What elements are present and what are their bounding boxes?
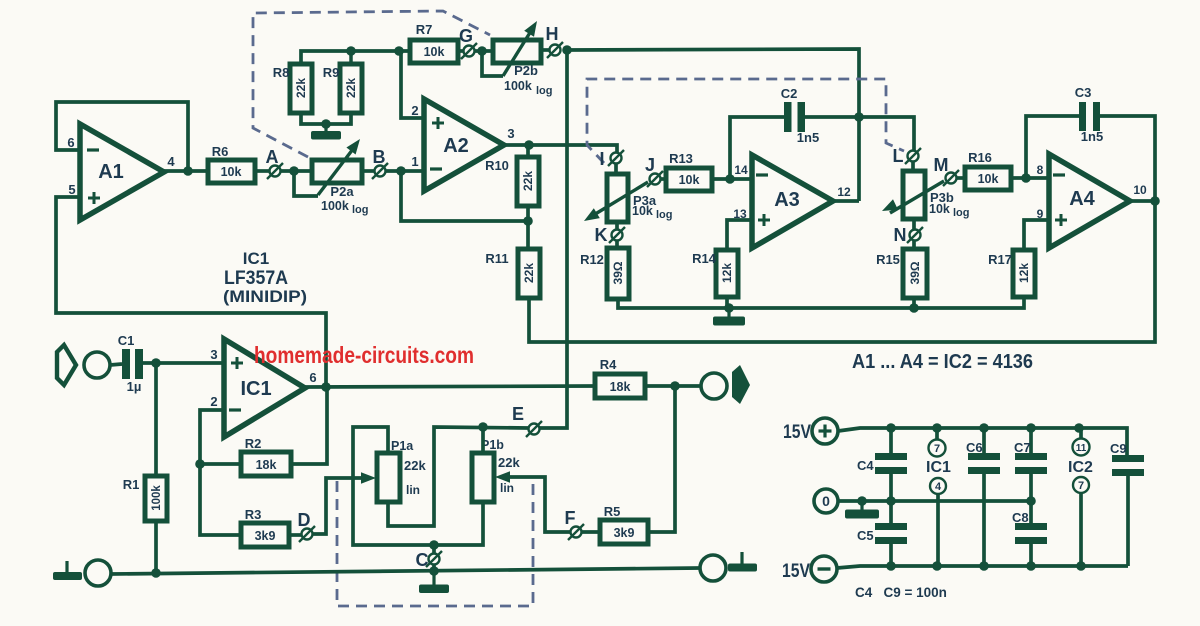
svg-text:3k9: 3k9 xyxy=(614,526,635,540)
svg-text:C9: C9 xyxy=(1110,441,1127,456)
P2b value label 100k log xyxy=(504,79,553,97)
node F xyxy=(571,527,582,538)
svg-text:C1: C1 xyxy=(118,333,135,348)
resistor R8 xyxy=(290,64,312,113)
resistor R15 xyxy=(903,240,927,298)
svg-text:18k: 18k xyxy=(610,380,631,394)
svg-text:22k: 22k xyxy=(294,78,308,98)
wire R11 bottom to A4 output xyxy=(529,201,1155,342)
resistor R1 xyxy=(145,363,167,573)
wire node A to P2a xyxy=(280,169,312,173)
junction C7 top xyxy=(1026,423,1036,433)
svg-text:log: log xyxy=(656,209,673,221)
dashed gang link P1a-P1b xyxy=(337,479,533,606)
svg-text:F: F xyxy=(565,508,576,528)
wire C3 right to A4 output xyxy=(1100,116,1155,201)
capacitor C7 xyxy=(1015,428,1047,501)
junction C4 C5 xyxy=(886,496,896,506)
svg-text:L: L xyxy=(893,146,904,166)
svg-text:homemade-circuits.com: homemade-circuits.com xyxy=(254,342,474,368)
svg-text:A1: A1 xyxy=(98,161,124,183)
P2a value label 100k log xyxy=(321,199,369,216)
svg-text:10k: 10k xyxy=(929,202,950,216)
svg-text:10: 10 xyxy=(1133,183,1147,197)
resistor R9 xyxy=(340,53,362,113)
svg-text:R6: R6 xyxy=(212,144,229,159)
svg-text:E: E xyxy=(512,404,524,424)
potentiometer P2b xyxy=(493,21,541,76)
wire P1b top stub xyxy=(481,427,485,453)
wire output column to node L xyxy=(859,117,914,150)
junction node C rail xyxy=(429,566,439,576)
dashed gang link P2a-P2b xyxy=(253,11,490,157)
svg-text:K: K xyxy=(595,225,608,245)
svg-text:22k: 22k xyxy=(521,171,535,191)
junction R9 top xyxy=(346,46,356,56)
wire A1 output to R6 xyxy=(164,169,208,173)
wire R15 bottom to ground rail xyxy=(912,298,916,308)
svg-text:H: H xyxy=(546,24,559,44)
junction node C xyxy=(429,540,439,550)
wire P2a wiper tie xyxy=(294,171,318,196)
junction at node G xyxy=(477,46,487,56)
junction IC1 pin7 top xyxy=(932,423,942,433)
svg-text:P2b: P2b xyxy=(514,63,538,78)
svg-text:22k: 22k xyxy=(404,458,426,473)
svg-text:LF357A: LF357A xyxy=(224,267,288,289)
op-amp A4 xyxy=(1049,154,1130,248)
svg-text:log: log xyxy=(352,204,369,216)
svg-text:P2a: P2a xyxy=(330,184,354,199)
svg-text:R12: R12 xyxy=(580,252,604,267)
junction IC2 pin7 bottom xyxy=(1076,561,1086,571)
svg-text:6: 6 xyxy=(309,370,316,385)
svg-text:C4: C4 xyxy=(857,458,874,473)
wire IC1 pin2 to feedback column xyxy=(200,410,241,535)
junction A4 pin8 xyxy=(1021,173,1031,183)
P1a wiper arrowhead xyxy=(361,472,376,484)
junction at node H xyxy=(562,45,572,55)
junction R14 ground xyxy=(724,303,734,313)
svg-text:A1 ... A4 = IC2 = 4136: A1 ... A4 = IC2 = 4136 xyxy=(852,351,1033,373)
IC1 type label xyxy=(223,249,307,306)
svg-text:A: A xyxy=(266,147,279,167)
svg-text:1: 1 xyxy=(411,154,418,169)
wire 0V rail xyxy=(838,499,1031,503)
svg-text:7: 7 xyxy=(934,443,940,455)
junction 0V ground xyxy=(857,496,867,506)
wire R8 R9 bottoms xyxy=(301,113,351,124)
node I xyxy=(611,153,622,164)
node D xyxy=(302,529,313,540)
svg-text:R9: R9 xyxy=(323,65,340,80)
junction P1b top xyxy=(478,422,488,432)
svg-text:lin: lin xyxy=(500,481,514,495)
junction A2 pin2 tap xyxy=(394,46,404,56)
resistor R10 xyxy=(517,145,539,221)
junction feedback column xyxy=(195,459,205,469)
node E xyxy=(529,424,540,435)
op-amp A3 xyxy=(752,155,833,248)
node M xyxy=(946,173,957,184)
wire P2b wiper tie xyxy=(482,51,503,76)
wire R2 left xyxy=(200,462,241,466)
svg-text:4: 4 xyxy=(935,481,942,493)
output terminal xyxy=(701,373,727,399)
IC1 pin 7 circle xyxy=(929,428,946,457)
wire P1a bottom to node E loop xyxy=(388,427,528,526)
junction C7 C8 xyxy=(1026,496,1036,506)
resistor R12 xyxy=(607,240,629,299)
junction IC2 pin11 top xyxy=(1074,423,1084,433)
potentiometer P3a xyxy=(584,163,648,222)
wire A1 feedback loop (pin6 to output) xyxy=(56,102,188,171)
svg-text:10k: 10k xyxy=(978,172,999,186)
junction at node B xyxy=(396,166,406,176)
wire node B down to R10 bottom rail xyxy=(401,171,528,221)
svg-text:IC2: IC2 xyxy=(1068,459,1093,476)
svg-text:3k9: 3k9 xyxy=(255,529,276,543)
resistor R3 xyxy=(241,523,289,547)
bottom rail left terminal xyxy=(85,560,111,586)
svg-text:P1a: P1a xyxy=(391,439,414,453)
wire R16 to A4 pin8 xyxy=(1011,176,1049,180)
svg-text:R2: R2 xyxy=(245,436,262,451)
junction A3 pin14 xyxy=(725,174,735,184)
svg-text:3: 3 xyxy=(210,347,217,362)
potentiometer P2a xyxy=(312,139,362,195)
junction R8 R9 bottom xyxy=(321,119,331,129)
capacitor C2 xyxy=(784,102,792,132)
svg-text:3: 3 xyxy=(507,126,514,141)
resistor R16 xyxy=(965,167,1011,190)
wire A3 output xyxy=(833,199,859,203)
junction R4 output xyxy=(670,381,680,391)
wire P1b wiper to node F xyxy=(503,477,570,532)
wire R4 to output terminal xyxy=(645,384,701,388)
junction IC1 pin4 bottom xyxy=(932,561,942,571)
svg-text:2: 2 xyxy=(210,394,217,409)
svg-text:R17: R17 xyxy=(988,252,1012,267)
svg-text:B: B xyxy=(373,147,386,167)
wire node G to P2b xyxy=(474,49,493,53)
svg-text:IC1: IC1 xyxy=(240,378,271,400)
junction A4 output xyxy=(1150,196,1160,206)
svg-text:log: log xyxy=(953,207,970,219)
ground at 0V rail xyxy=(860,501,863,510)
-15V terminal xyxy=(782,556,837,582)
ground under R8 R9 xyxy=(324,124,327,132)
junction R15 ground xyxy=(909,303,919,313)
svg-text:A3: A3 xyxy=(774,189,800,211)
ground under R14 xyxy=(727,308,730,317)
resistor R14 xyxy=(716,250,738,308)
svg-text:M: M xyxy=(934,155,949,175)
svg-text:0: 0 xyxy=(822,493,830,509)
svg-text:R11: R11 xyxy=(485,251,508,266)
wire -15V bottom rail xyxy=(837,566,1128,568)
wire +15V top rail xyxy=(838,428,1127,455)
svg-text:R1: R1 xyxy=(123,477,140,492)
wire node D to P1a wiper xyxy=(313,478,366,534)
svg-text:22k: 22k xyxy=(498,455,520,470)
svg-text:G: G xyxy=(459,26,473,46)
resistor R6 xyxy=(208,160,255,183)
wire C2 right to output column xyxy=(805,115,859,119)
svg-text:39Ω: 39Ω xyxy=(908,261,922,284)
svg-text:4: 4 xyxy=(167,154,175,169)
svg-text:100k: 100k xyxy=(151,485,163,511)
wire C3 feedback left xyxy=(1026,116,1079,178)
capacitor C4 xyxy=(875,428,907,501)
wire R5 to output node xyxy=(648,386,675,532)
wire A3 pin13 to R14 xyxy=(727,220,752,250)
wire A4 output xyxy=(1130,199,1155,203)
resistor R7 xyxy=(410,40,458,63)
svg-text:lin: lin xyxy=(406,483,420,497)
junction C5 bottom xyxy=(886,561,896,571)
P3b value label 10k log xyxy=(929,202,970,219)
svg-text:N: N xyxy=(894,225,907,245)
IC1 pin 4 circle xyxy=(930,478,946,566)
junction R10 bottom xyxy=(523,216,533,226)
svg-text:1n5: 1n5 xyxy=(1081,129,1103,144)
wire R6 to node A xyxy=(255,169,270,173)
resistor R13 xyxy=(666,168,712,191)
junction C6 top xyxy=(979,423,989,433)
op-amp A2 xyxy=(424,99,504,191)
svg-text:14: 14 xyxy=(734,163,748,177)
IC2 pin 7 circle xyxy=(1073,477,1089,566)
svg-text:R15: R15 xyxy=(876,252,900,267)
svg-text:C4 C9 = 100n: C4 C9 = 100n xyxy=(855,585,947,600)
svg-text:12: 12 xyxy=(837,185,851,199)
svg-text:IC1: IC1 xyxy=(243,249,269,268)
wire node B to A2 pin1 xyxy=(385,169,424,173)
svg-text:8: 8 xyxy=(1037,163,1044,177)
svg-text:10k: 10k xyxy=(679,173,700,187)
svg-text:D: D xyxy=(298,510,311,530)
dashed gang link P3a-P3b xyxy=(587,79,904,163)
wire P2b to node H xyxy=(541,48,550,52)
svg-text:R13: R13 xyxy=(669,151,693,166)
wire node H to A3 output column xyxy=(567,49,859,201)
P1b wiper arrowhead xyxy=(495,471,510,483)
svg-text:10k: 10k xyxy=(221,165,242,179)
+15V terminal xyxy=(783,418,838,444)
svg-text:(MINIDIP): (MINIDIP) xyxy=(223,287,307,306)
svg-text:R14: R14 xyxy=(692,251,717,266)
svg-text:C6: C6 xyxy=(966,440,983,455)
svg-text:2: 2 xyxy=(411,103,418,118)
IC2 pin 11 circle xyxy=(1073,428,1090,456)
svg-text:C8: C8 xyxy=(1012,510,1029,525)
svg-text:C5: C5 xyxy=(857,528,874,543)
svg-text:10k: 10k xyxy=(424,45,445,59)
wire P1a top to node C loop xyxy=(353,427,434,545)
node N xyxy=(910,230,921,241)
svg-text:R7: R7 xyxy=(416,22,433,37)
output arrow symbol xyxy=(732,365,750,404)
wire node F to R5 xyxy=(582,530,600,534)
junction A2 output xyxy=(524,140,534,150)
wire R8 R9 tops to R7 xyxy=(301,51,410,64)
capacitor C5 xyxy=(875,501,907,566)
wire R2 right to IC1 output xyxy=(291,387,327,464)
svg-text:10k: 10k xyxy=(632,204,653,218)
node L xyxy=(908,151,919,162)
capacitor C6 xyxy=(968,428,1000,566)
svg-text:15V: 15V xyxy=(783,422,811,443)
wire IC1 output to R4 xyxy=(305,386,595,387)
junction A1 output xyxy=(183,166,193,176)
svg-text:18k: 18k xyxy=(256,458,277,472)
potentiometer P1a xyxy=(377,453,400,502)
junction at node A xyxy=(289,166,299,176)
input arrow symbol xyxy=(57,345,76,385)
wire down to A2 pin2 xyxy=(401,51,424,118)
wire node M to R16 xyxy=(957,176,965,180)
svg-text:5: 5 xyxy=(68,182,75,197)
svg-text:39Ω: 39Ω xyxy=(611,261,625,284)
svg-text:100k: 100k xyxy=(504,79,532,93)
svg-text:IC1: IC1 xyxy=(926,459,951,476)
junction C6 bottom xyxy=(979,561,989,571)
resistor R2 xyxy=(241,452,291,476)
wire A4 pin9 to R17 xyxy=(1024,220,1049,250)
wire P2a to node B xyxy=(362,169,375,173)
svg-text:15V: 15V xyxy=(782,561,810,582)
junction C8 bottom xyxy=(1026,561,1036,571)
op-amp IC1 xyxy=(224,339,305,437)
junction C1 R1 xyxy=(151,358,161,368)
node K xyxy=(612,230,623,241)
svg-text:100k: 100k xyxy=(321,199,349,213)
wire R3 to node D xyxy=(289,533,301,537)
potentiometer P3b xyxy=(882,162,944,219)
potentiometer P1b xyxy=(472,453,494,502)
node A xyxy=(270,166,281,177)
node J xyxy=(650,174,661,185)
op-amp A1 xyxy=(80,124,164,220)
wire node J to R13 xyxy=(661,177,666,181)
wire node H down to node E xyxy=(540,50,567,428)
ground at output rail xyxy=(740,552,743,564)
resistor R4 xyxy=(595,374,645,398)
svg-text:R16: R16 xyxy=(968,150,992,165)
junction C4 top xyxy=(886,423,896,433)
capacitor C8 xyxy=(1015,501,1047,566)
svg-text:22k: 22k xyxy=(344,78,358,98)
wire R12 bottom to ground rail xyxy=(618,297,1024,308)
svg-text:7: 7 xyxy=(1078,480,1084,492)
svg-text:C2: C2 xyxy=(781,86,798,101)
junction R1 bottom rail xyxy=(151,568,161,578)
svg-text:12k: 12k xyxy=(720,263,734,283)
wire P3a to node K xyxy=(615,221,619,230)
wire A2 output to node I xyxy=(504,145,617,153)
node G xyxy=(464,46,475,57)
svg-text:6: 6 xyxy=(67,135,74,150)
svg-text:22k: 22k xyxy=(522,263,536,283)
wire C2 feedback left xyxy=(730,117,784,179)
svg-text:log: log xyxy=(536,85,553,97)
junction C2 output column xyxy=(854,112,864,122)
junction IC1 output xyxy=(321,382,331,392)
resistor R17 xyxy=(1013,250,1035,297)
0V terminal xyxy=(814,489,838,513)
ground at input rail xyxy=(65,561,68,573)
svg-text:A4: A4 xyxy=(1069,188,1095,210)
node B xyxy=(375,166,386,177)
svg-text:R5: R5 xyxy=(604,504,621,519)
svg-text:A2: A2 xyxy=(443,135,469,157)
wire R7 to node G xyxy=(458,49,464,53)
svg-text:R8: R8 xyxy=(273,65,290,80)
svg-text:C3: C3 xyxy=(1075,85,1092,100)
wire A1 pin5 to IC1 output node xyxy=(56,197,326,387)
capacitor C3 xyxy=(1079,102,1086,131)
svg-text:C: C xyxy=(416,550,429,570)
node C xyxy=(426,545,442,571)
svg-text:R3: R3 xyxy=(245,507,262,522)
node H xyxy=(550,45,561,56)
svg-text:11: 11 xyxy=(1076,443,1087,454)
svg-text:R4: R4 xyxy=(600,357,617,372)
bottom rail right terminal xyxy=(700,555,726,581)
svg-text:1µ: 1µ xyxy=(127,379,142,394)
wire C1 to IC1 pin3 xyxy=(143,361,224,365)
svg-text:1n5: 1n5 xyxy=(797,130,819,145)
resistor R11 xyxy=(518,221,540,298)
capacitor C1 xyxy=(122,349,130,379)
wire R13 to A3 pin14 xyxy=(712,177,752,181)
P3a value label 10k log xyxy=(632,204,673,221)
svg-text:12k: 12k xyxy=(1017,263,1031,283)
resistor R5 xyxy=(600,520,648,544)
wire bottom rail xyxy=(111,568,700,574)
wire input terminal to C1 xyxy=(110,364,122,365)
wire P3b to node N xyxy=(912,219,916,230)
input terminal xyxy=(84,352,110,378)
svg-text:R10: R10 xyxy=(485,158,509,173)
wire P1b bottom to node C xyxy=(434,502,483,545)
svg-text:I: I xyxy=(599,149,604,169)
capacitor C9 xyxy=(1112,455,1144,566)
ground under node C xyxy=(432,571,435,585)
svg-text:J: J xyxy=(645,155,655,175)
svg-text:C7: C7 xyxy=(1014,440,1031,455)
